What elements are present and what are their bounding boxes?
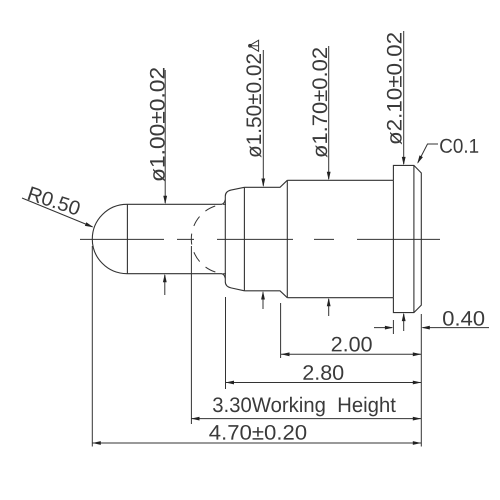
shaft top line xyxy=(127,200,225,205)
taper triangle symbol xyxy=(249,40,259,51)
dimension ø1.50±0.02 upper line and arrow xyxy=(246,50,265,187)
dimension ø1.70±0.02 upper line and arrow xyxy=(312,46,330,180)
dimension ø1.00±0.02 upper line and arrow xyxy=(150,68,167,204)
body section ø1.70 xyxy=(287,180,393,297)
dimension ø1.00 lower arrow xyxy=(163,274,167,295)
hidden arc (compressed tip, dashed) xyxy=(191,204,226,273)
dimension ø1.50 lower arrow xyxy=(261,291,265,309)
leader R0.50 xyxy=(22,186,94,227)
centerline xyxy=(80,238,440,240)
dimension 2.00 xyxy=(281,303,422,358)
dimension ø2.10 lower arrow xyxy=(402,313,406,331)
plunger tip arc R0.50 xyxy=(92,204,127,273)
flange ø2.10 outline xyxy=(393,165,421,312)
tip tangent line xyxy=(126,204,128,273)
leader C0.1 xyxy=(417,139,478,164)
dimension 2.80 xyxy=(226,297,422,389)
dimension ø1.70 lower arrow xyxy=(327,298,331,316)
crown section ø1.50 outline xyxy=(225,180,287,297)
shaft bottom line xyxy=(127,274,225,279)
dimension ø2.10±0.02 upper line and arrow xyxy=(387,31,406,165)
flange chamfer edge line xyxy=(413,165,415,312)
dimension 0.40 xyxy=(374,311,489,447)
dimension 3.30 Working Height xyxy=(191,246,421,424)
dimension 4.70±0.20 xyxy=(92,246,421,447)
crown inner edge line xyxy=(243,187,245,290)
